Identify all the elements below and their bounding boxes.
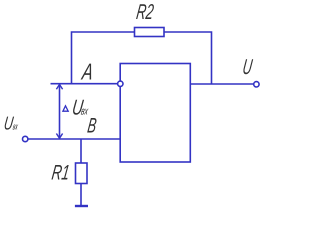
svg-text:R2: R2 [135,0,155,24]
svg-text:R1: R1 [50,162,71,185]
